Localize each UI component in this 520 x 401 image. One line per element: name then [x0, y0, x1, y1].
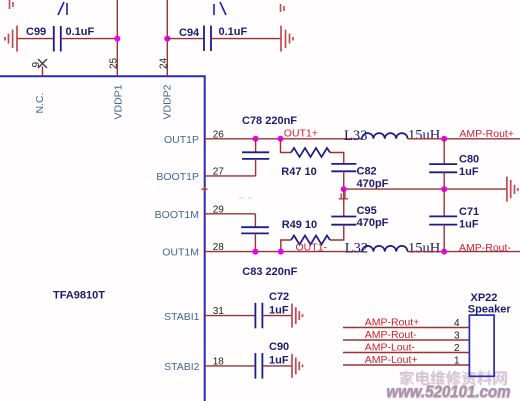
pin 26 wire OUT1P [205, 138, 362, 140]
wire R47 left lead [281, 139, 292, 153]
svg-text:4: 4 [454, 318, 460, 329]
ground GND1 (top-left, opens left) [5, 26, 17, 52]
ground GND5 (opens right) [292, 354, 303, 378]
pin 28 wire OUT1M [205, 251, 362, 253]
wire C95 top lead from junction [343, 189, 345, 216]
svg-text:AMP-Rout-: AMP-Rout- [459, 242, 511, 254]
cut-off mark blue coil tip left [58, 2, 67, 15]
svg-text:1uF: 1uF [269, 304, 289, 316]
ground GND3 (middle-right, opens right) [507, 177, 518, 202]
svg-text:15uH: 15uH [408, 240, 441, 256]
svg-text:VDDP1: VDDP1 [112, 84, 124, 119]
svg-text:C72: C72 [269, 291, 289, 303]
wire L32 to right edge [408, 251, 520, 253]
wire pin 24 vertical [166, 0, 168, 76]
small power-ground mark under junction [339, 191, 348, 199]
svg-text:18: 18 [213, 356, 225, 367]
inductor L32 [362, 246, 408, 252]
svg-text:470pF: 470pF [357, 178, 389, 190]
wire C80 top lead [443, 139, 445, 164]
svg-text:OUT1M: OUT1M [162, 247, 199, 259]
svg-text:N.C.: N.C. [34, 93, 46, 114]
wire C90 to GND5 [262, 365, 292, 367]
junction node at pin 25 [114, 36, 120, 42]
svg-text:C78 220nF: C78 220nF [242, 115, 297, 127]
wire C95 bottom to R49 [330, 225, 344, 240]
capacitor C95 [331, 217, 356, 225]
svg-text:OUT1+: OUT1+ [284, 128, 318, 140]
wire C80 bottom lead [443, 172, 445, 189]
capacitor C78 [242, 152, 269, 159]
wire C71 bottom lead [443, 225, 445, 252]
stub tick on IC edge mid [202, 187, 208, 192]
pin 9 N.C. stub [42, 67, 44, 77]
junction C78/pin26 [253, 136, 259, 142]
svg-text:1uF: 1uF [269, 354, 289, 366]
capacitor C82 [331, 164, 356, 171]
capacitor C90 [255, 353, 262, 379]
svg-text:15uH: 15uH [408, 128, 441, 144]
svg-text:1uF: 1uF [459, 166, 479, 178]
wire C99 to node VDDP1 [61, 38, 118, 40]
capacitor C99 [54, 26, 61, 52]
watermark www.520101.com [387, 383, 511, 401]
svg-text:OUT1-: OUT1- [296, 242, 328, 254]
wire C78 top lead [255, 139, 257, 153]
svg-text:AMP-Rout+: AMP-Rout+ [459, 128, 514, 140]
cut-off mark blue coil tip right [214, 2, 226, 15]
wire XP22 pin4 AMP-Rout+ [343, 327, 469, 329]
wire R49 left lead [281, 240, 291, 252]
cut-off mark top-left red bars [10, 0, 14, 9]
capacitor C83 [241, 227, 269, 233]
junction middle net at C80/C71 [441, 186, 447, 192]
svg-text:STABI1: STABI1 [164, 311, 200, 323]
wire pin 25 vertical [116, 0, 118, 76]
junction node at pin 24 [164, 36, 170, 42]
wire L33 to right edge [408, 138, 520, 140]
junction R47/pin26 [278, 136, 284, 142]
svg-text:C94: C94 [179, 27, 200, 39]
resistor R47 [291, 148, 330, 157]
pin 29 wire BOOT1M [205, 213, 256, 215]
svg-text:25: 25 [109, 57, 120, 69]
svg-text:29: 29 [213, 204, 225, 215]
svg-text:R47 10: R47 10 [281, 166, 316, 178]
ground GND2 (top-right, opens right) [281, 26, 293, 52]
svg-text:OUT1P: OUT1P [164, 134, 199, 146]
no-connect X at pin 9 [38, 59, 47, 68]
svg-text:L33: L33 [344, 128, 367, 144]
wire C71 top lead [443, 189, 445, 216]
wire C78 bottom lead [255, 159, 257, 176]
svg-text:BOOT1P: BOOT1P [156, 171, 199, 183]
svg-text:C99: C99 [26, 26, 46, 38]
svg-text:1uF: 1uF [459, 218, 479, 230]
svg-text:AMP-Lout+: AMP-Lout+ [365, 354, 418, 366]
pin 18 wire STABI2 [205, 365, 255, 367]
wire GND1 to C99 [17, 38, 54, 40]
svg-text:VDDP2: VDDP2 [162, 84, 174, 119]
svg-text:1: 1 [454, 356, 460, 367]
junction middle net at C82 [341, 186, 347, 192]
cut-off mark red bars above right ground [281, 4, 285, 12]
svg-text:27: 27 [213, 166, 225, 177]
svg-text:TFA9810T: TFA9810T [53, 290, 105, 302]
svg-text:31: 31 [213, 306, 225, 317]
svg-text:C82: C82 [357, 166, 377, 178]
svg-text:0.1uF: 0.1uF [219, 26, 248, 38]
pin 27 wire BOOT1P [205, 175, 256, 177]
svg-text:470pF: 470pF [357, 217, 389, 229]
connector XP22 body [469, 315, 494, 376]
svg-text:24: 24 [159, 57, 170, 69]
ground GND4 (opens right) [292, 304, 303, 328]
svg-text:2: 2 [454, 343, 460, 354]
svg-text:Speaker: Speaker [468, 303, 512, 315]
junction C83/pin28 [252, 249, 258, 255]
svg-text:R49 10: R49 10 [282, 219, 317, 231]
junction C71/OUT1M line [441, 249, 447, 255]
wire C83 bottom lead [254, 233, 256, 251]
capacitor C72 [255, 303, 262, 329]
wire C82 bottom to junction [343, 171, 345, 189]
resistor R49 [291, 236, 330, 245]
capacitor C94 [204, 26, 211, 52]
pin 31 wire STABI1 [205, 315, 255, 317]
wire XP22 pin3 AMP-Rout- [343, 339, 469, 341]
svg-text:C71: C71 [459, 206, 479, 218]
svg-text:C90: C90 [269, 341, 289, 353]
svg-text:C80: C80 [459, 154, 479, 166]
svg-text:BOOT1M: BOOT1M [155, 209, 199, 221]
junction C80/OUT1P line [441, 136, 447, 142]
watermark chinese 家电维修资料网 [399, 370, 509, 388]
svg-text:26: 26 [213, 129, 225, 140]
IC U1 TFA9810T outline [0, 76, 205, 401]
svg-text:9: 9 [31, 62, 42, 68]
capacitor C71 [429, 216, 457, 224]
wire C94 to GND2 [211, 38, 281, 40]
svg-text:AMP-Rout-: AMP-Rout- [365, 329, 417, 341]
wire C83 top lead [254, 214, 256, 227]
wire node24 to C94 [167, 38, 203, 40]
svg-text:28: 28 [213, 242, 225, 253]
svg-text:0.1uF: 0.1uF [66, 26, 95, 38]
svg-text:www.520101.com: www.520101.com [387, 383, 511, 401]
svg-text:L32: L32 [345, 241, 368, 257]
junction R49/pin28 [278, 249, 284, 255]
svg-text:AMP-Rout+: AMP-Rout+ [365, 316, 420, 328]
capacitor C80 [429, 164, 457, 172]
wire C72 to GND4 [262, 315, 292, 317]
wire R47 right lead to C82 [330, 153, 344, 164]
svg-text:C95: C95 [357, 205, 377, 217]
inductor L33 [362, 133, 408, 139]
faint watermark dashes [239, 197, 252, 199]
svg-text:STABI2: STABI2 [164, 361, 200, 373]
wire middle net C82/C95 to GND3 [344, 188, 507, 190]
svg-text:XP22: XP22 [471, 292, 498, 304]
wire XP22 pin1 AMP-Lout+ [343, 364, 469, 366]
svg-text:AMP-Lout-: AMP-Lout- [365, 341, 416, 353]
svg-text:C83 220nF: C83 220nF [242, 266, 297, 278]
svg-text:3: 3 [454, 331, 460, 342]
wire XP22 pin2 AMP-Lout- [343, 352, 469, 354]
